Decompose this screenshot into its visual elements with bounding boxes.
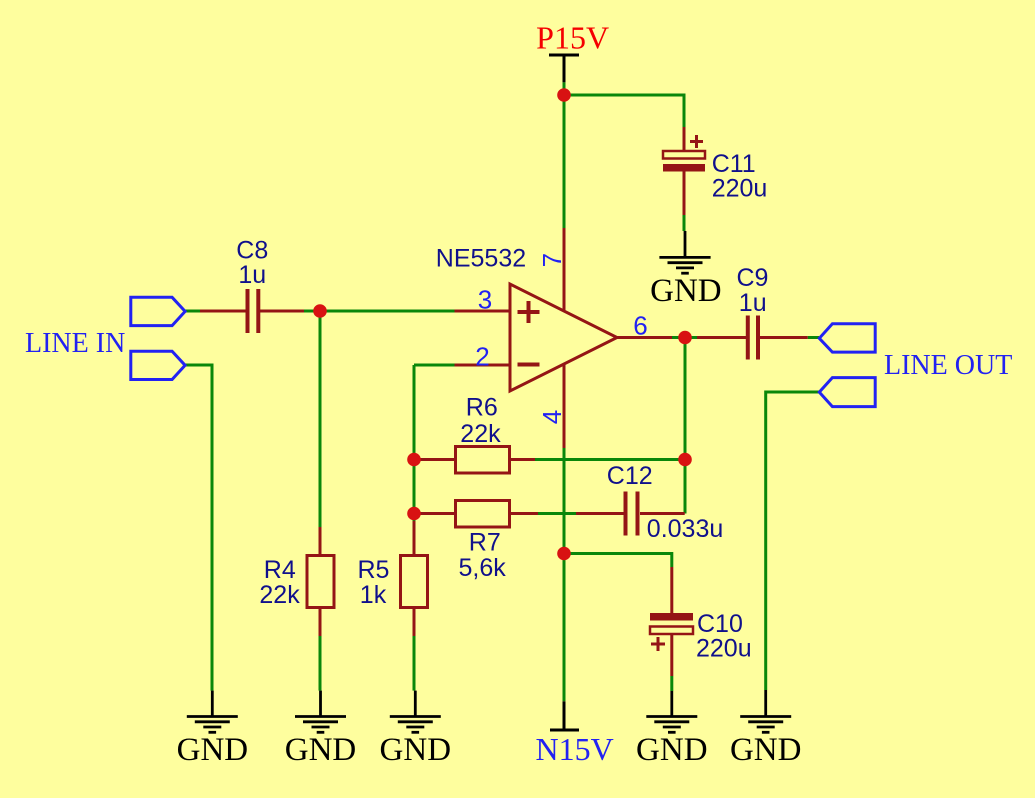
svg-text:7: 7 — [537, 253, 567, 267]
svg-text:P15V: P15V — [536, 20, 609, 56]
svg-text:R5: R5 — [358, 556, 390, 584]
svg-text:GND: GND — [636, 732, 708, 768]
svg-text:GND: GND — [730, 732, 802, 768]
svg-text:22k: 22k — [259, 581, 300, 609]
svg-text:0.033u: 0.033u — [647, 515, 723, 543]
svg-text:GND: GND — [285, 732, 357, 768]
svg-text:R6: R6 — [466, 394, 498, 422]
svg-text:220u: 220u — [696, 634, 752, 662]
svg-text:22k: 22k — [460, 420, 501, 448]
svg-text:LINE IN: LINE IN — [25, 328, 125, 359]
svg-text:GND: GND — [177, 732, 249, 768]
svg-text:C12: C12 — [607, 462, 653, 490]
svg-text:220u: 220u — [712, 175, 768, 203]
svg-text:LINE OUT: LINE OUT — [884, 350, 1012, 381]
svg-text:5,6k: 5,6k — [459, 554, 507, 582]
svg-text:C11: C11 — [712, 150, 756, 178]
svg-text:R7: R7 — [469, 528, 501, 556]
svg-text:N15V: N15V — [535, 731, 613, 767]
svg-text:3: 3 — [478, 284, 492, 314]
svg-text:1k: 1k — [360, 581, 387, 609]
svg-text:GND: GND — [380, 732, 452, 768]
svg-text:1u: 1u — [739, 289, 767, 317]
svg-text:C9: C9 — [737, 264, 769, 292]
svg-text:6: 6 — [633, 311, 647, 341]
svg-text:NE5532: NE5532 — [436, 244, 526, 272]
svg-text:4: 4 — [537, 410, 567, 424]
svg-text:GND: GND — [650, 273, 722, 309]
svg-text:R4: R4 — [264, 556, 296, 584]
svg-text:1u: 1u — [238, 261, 266, 289]
svg-text:2: 2 — [475, 342, 489, 372]
